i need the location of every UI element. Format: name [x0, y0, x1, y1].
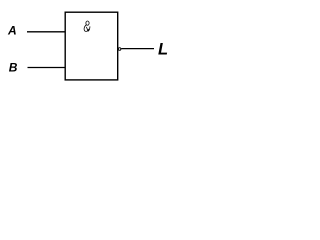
wire A input: [27, 31, 65, 33]
inverter bubble on output: [118, 48, 121, 51]
svg-text:B: B: [9, 60, 18, 74]
wire L output: [121, 48, 154, 50]
svg-text:L: L: [158, 41, 168, 59]
NAND gate U1 function label &: [84, 21, 90, 31]
NAND gate U1 body: [65, 12, 118, 80]
svg-text:A: A: [7, 23, 17, 37]
wire B input: [28, 67, 66, 69]
